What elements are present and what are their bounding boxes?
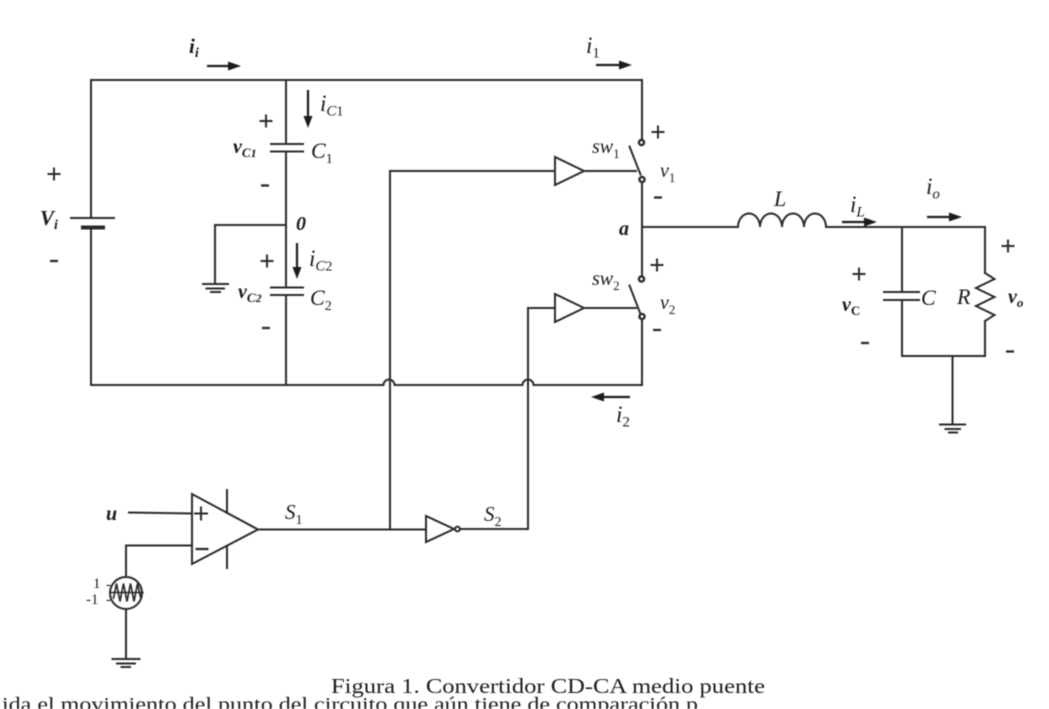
arrow i_i [207, 62, 241, 71]
svg-text:S2: S2 [484, 502, 502, 530]
label plus Vi [48, 168, 61, 181]
node a wire to inductor [642, 226, 738, 228]
driver U2 output wire [584, 307, 636, 309]
inverter U4 triangle [426, 516, 454, 542]
svg-text:S1: S1 [285, 500, 303, 528]
svg-text:i2: i2 [616, 402, 630, 431]
svg-text:-1: -1 [86, 592, 99, 608]
label minus v1 [654, 196, 662, 198]
driver U2 input wire [528, 307, 555, 309]
capacitor C [884, 292, 919, 300]
label plus vC [853, 268, 866, 281]
wire top bus [91, 79, 642, 81]
comparator top tick [226, 490, 228, 513]
inductor L [738, 214, 826, 227]
svg-text:v1: v1 [660, 160, 675, 185]
wire inverting input [126, 546, 192, 578]
wire sw1 to node a [641, 183, 643, 228]
comparator bottom tick [226, 546, 228, 568]
label minus comparator [196, 548, 209, 550]
arrow i_C2 [293, 243, 302, 279]
resistor R [976, 273, 995, 321]
arrow i_o [927, 213, 962, 222]
label minus v2 [653, 329, 661, 331]
svg-text:sw2: sw2 [592, 268, 620, 293]
ground output [940, 425, 965, 433]
arrow i_L [842, 218, 877, 227]
wire u input [129, 513, 192, 514]
wire capacitor C branch upper [901, 227, 903, 291]
svg-text:ii: ii [189, 34, 199, 61]
wire resistor branch upper [984, 227, 986, 273]
wire S1 output [258, 529, 426, 531]
svg-text:-: - [106, 577, 111, 593]
svg-text:io: io [926, 174, 940, 203]
wire right drop from top bus [641, 80, 643, 140]
svg-text:u: u [106, 503, 117, 525]
wire capacitor C branch lower [901, 301, 903, 357]
svg-text:iC1: iC1 [320, 91, 343, 120]
svg-text:0: 0 [296, 213, 306, 235]
label minus Vi [50, 260, 58, 262]
label minus vC [861, 342, 869, 344]
wire left rail upper [90, 80, 92, 218]
label minus C2 [262, 327, 270, 329]
wire node 0 stub [215, 225, 286, 282]
wire between C1 and C2 [285, 152, 287, 287]
wire S2 riser to driver U2 [527, 308, 529, 529]
wire below C2 [285, 296, 287, 386]
svg-text:sw1: sw1 [592, 136, 620, 161]
svg-text:v2: v2 [660, 292, 675, 317]
wire output ground stem [952, 356, 954, 423]
wire S2 output [461, 528, 529, 530]
svg-text:i1: i1 [586, 33, 600, 62]
wire output bottom [902, 355, 985, 357]
ground source [113, 659, 140, 667]
wire bottom bus with hops [91, 380, 642, 386]
label minus C1 [261, 184, 269, 186]
svg-text:vC2: vC2 [238, 281, 262, 305]
arrow i_2 [591, 393, 630, 402]
arrow i_C1 [304, 90, 313, 128]
label plus comparator [194, 507, 208, 521]
source V2 waveform [114, 584, 141, 602]
arrow i_1 [596, 61, 632, 70]
svg-text:L: L [773, 186, 786, 211]
svg-text:1: 1 [93, 576, 101, 592]
svg-text:Vi: Vi [40, 206, 58, 233]
label plus C2 [261, 255, 274, 268]
wire resistor branch lower [984, 321, 986, 356]
switch sw1 [630, 140, 645, 182]
svg-text:C: C [921, 285, 936, 310]
svg-text:iC2: iC2 [309, 246, 332, 275]
svg-text:a: a [619, 218, 629, 240]
label minus vo [1006, 350, 1014, 352]
svg-text:ida el movimiento del punto de: ida el movimiento del punto del circuito… [2, 694, 698, 709]
capacitor C2 [271, 288, 303, 296]
driver U1 input wire [390, 170, 555, 172]
source V2 midline [110, 592, 143, 594]
label plus v1 [652, 126, 665, 139]
ground node 0 [203, 284, 228, 292]
label plus C1 [260, 115, 273, 128]
switch sw2 [630, 276, 645, 319]
driver U2 triangle [555, 294, 584, 322]
source V2 triangle-wave circle [110, 577, 142, 609]
svg-text:R: R [956, 284, 971, 309]
driver U1 output wire [584, 170, 636, 172]
svg-text:vC: vC [842, 294, 860, 318]
svg-text:vC1: vC1 [233, 136, 257, 160]
driver U1 triangle [555, 157, 584, 185]
wire inductor to output node [826, 226, 985, 228]
wire left rail lower [90, 228, 92, 385]
wire sw2 upper [641, 227, 643, 276]
wire S1 riser to driver U1 [389, 171, 391, 529]
wire sw2 lower [641, 320, 643, 386]
label plus vo [1002, 240, 1015, 253]
inverter U4 bubble [455, 527, 460, 532]
op-amp comparator U3 [192, 494, 258, 564]
wire center branch above C1 [285, 80, 287, 143]
svg-text:-: - [106, 592, 111, 608]
battery Vi [71, 218, 114, 228]
svg-text:C1: C1 [311, 138, 333, 167]
capacitor C1 [271, 144, 303, 152]
wire source to ground [125, 609, 127, 657]
label plus v2 [651, 259, 664, 272]
svg-text:vo: vo [1008, 286, 1024, 310]
svg-text:iL: iL [850, 192, 865, 221]
svg-text:C2: C2 [310, 285, 332, 314]
